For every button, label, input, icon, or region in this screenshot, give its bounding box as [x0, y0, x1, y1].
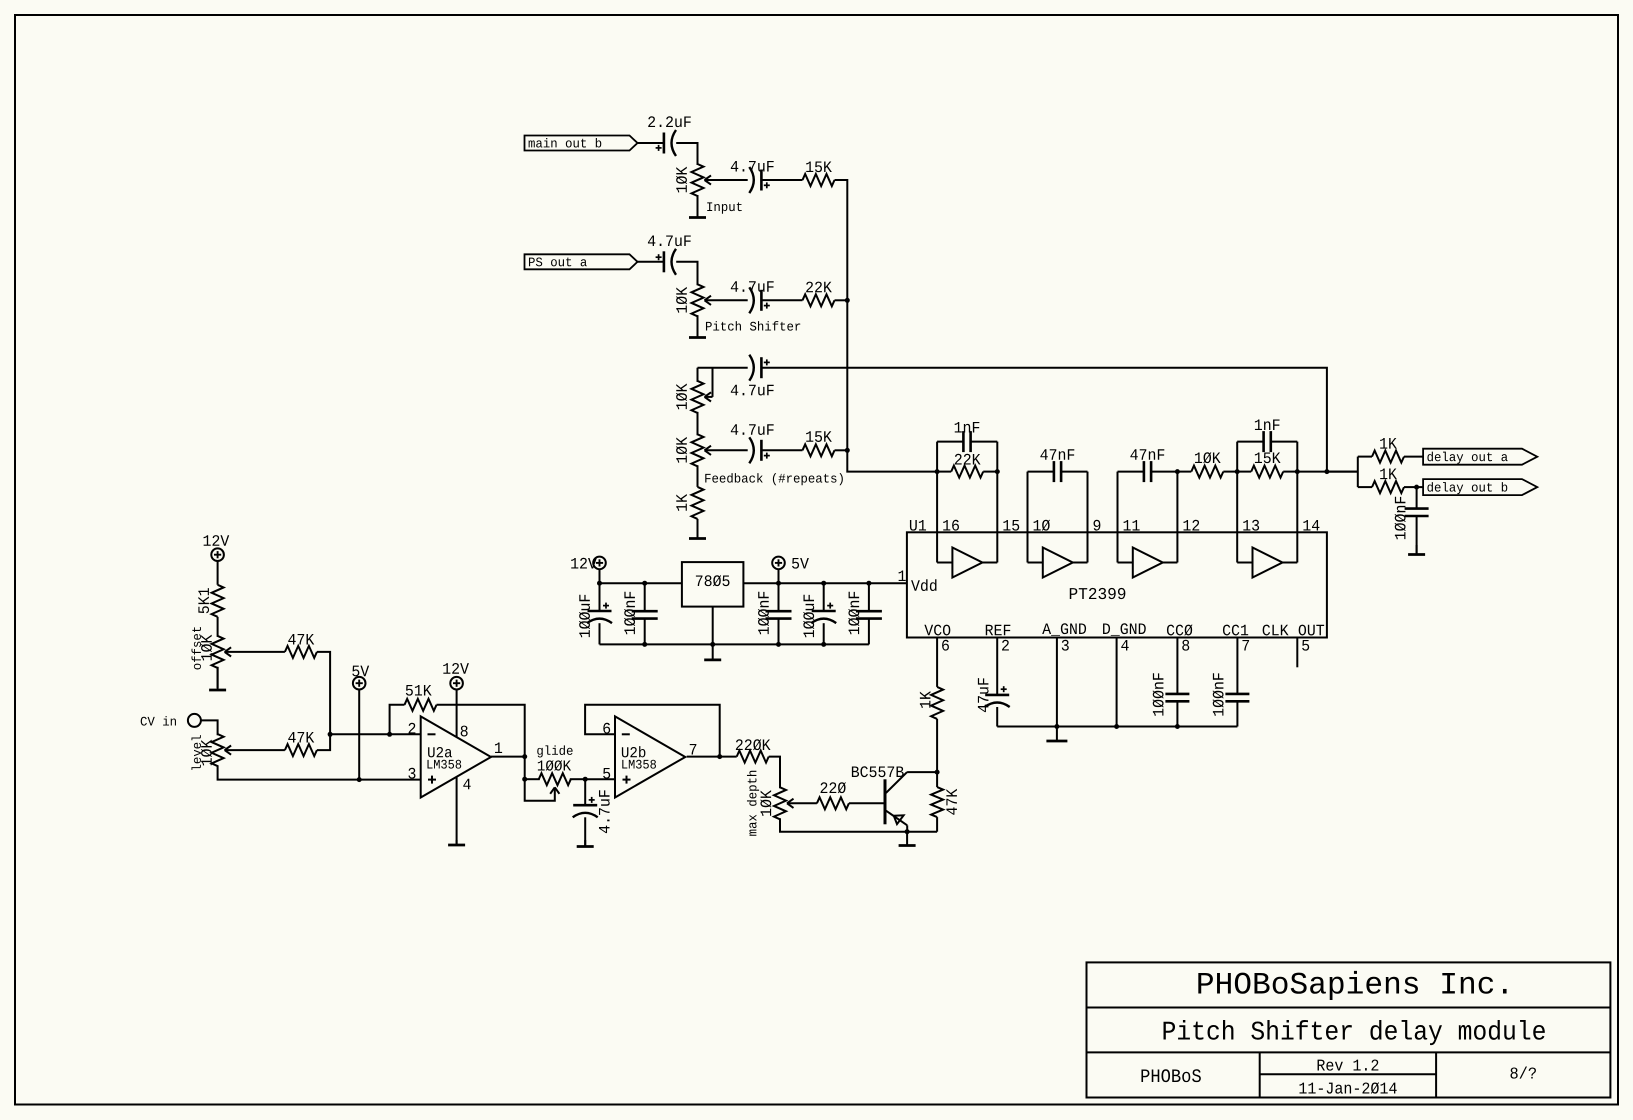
title block divider row2	[1087, 1051, 1611, 1053]
minus sign U2b	[622, 733, 630, 735]
junction 100uF 5V rail	[821, 581, 826, 586]
junction mix bus / 22K	[845, 298, 850, 303]
wire Input wiper to C2	[706, 179, 748, 181]
connector delay out b	[1423, 479, 1537, 495]
label 10K (Input pot)	[676, 167, 687, 193]
wire IC ground rail	[997, 726, 1237, 728]
wire level pot bottom to U2a pin3	[218, 765, 421, 779]
wire feedback wiper to C6	[706, 449, 748, 451]
pin number 7	[1242, 640, 1249, 651]
label 5K1	[198, 588, 209, 613]
capacitor 4.7uF (glide)	[573, 804, 597, 807]
potentiometer 10K feedback lower (Feedback #repeats)	[692, 434, 704, 466]
label 15K (input mix)	[806, 161, 832, 172]
wire 12V rail to 7805	[600, 582, 682, 584]
junction delay out b / 100nF	[1414, 485, 1419, 490]
label CV in	[141, 716, 176, 726]
label 10K (max depth)	[760, 790, 771, 816]
junction pin13 node	[1235, 469, 1240, 474]
wire main out b to C1	[638, 142, 664, 144]
label 4.7uF (PS coupling)	[648, 235, 691, 246]
label U2b	[622, 746, 646, 757]
wire pin10 vertical	[1027, 472, 1029, 533]
connector main out b	[525, 136, 638, 151]
wire 47K top	[936, 772, 938, 787]
label 10K (feedback lower)	[676, 437, 687, 463]
resistor 1K (delay out a)	[1372, 451, 1404, 463]
connector delay out a	[1423, 449, 1537, 465]
label level	[191, 735, 201, 770]
power 5V (CV bias)	[353, 677, 366, 690]
label 1nF (pin13-14)	[1255, 419, 1280, 430]
pin number 9	[1094, 520, 1101, 531]
potentiometer 10K offset	[212, 636, 224, 668]
pin number 6	[942, 640, 949, 651]
wire max depth wiper to 220	[792, 802, 817, 804]
junction U2a output / 51K	[522, 754, 527, 759]
label offset	[191, 627, 201, 669]
label 1K (delay out a)	[1380, 438, 1397, 449]
ground (transistor)	[906, 832, 908, 846]
junction U2b output	[717, 754, 722, 759]
title text date	[1299, 1082, 1396, 1094]
title text Pitch Shifter delay module	[1164, 1020, 1545, 1045]
op-amp buffer C (U1 internal, pins 11-12)	[1117, 532, 1119, 562]
junction 7805 gnd rail	[710, 642, 715, 647]
wire delay output node to split	[1327, 471, 1358, 473]
title text page number	[1510, 1067, 1535, 1079]
label 5V (regulator)	[792, 558, 809, 569]
ground (U2a pin4)	[456, 840, 458, 845]
resistor 1K (delay out b)	[1372, 481, 1404, 493]
ground (delay out b filter)	[1416, 545, 1418, 555]
label 47nF (pin10-9)	[1040, 449, 1074, 460]
wire 100nF to ground	[1416, 516, 1418, 553]
transistor BC557B	[884, 779, 887, 824]
wire C1 to Input pot top	[676, 143, 697, 165]
wire 1K to emitter node	[936, 719, 938, 772]
capacitor 100nF (CC0)	[1165, 693, 1189, 696]
label 12V (offset)	[204, 535, 230, 546]
label PT2399	[1070, 588, 1126, 599]
pin 1 Vdd lead	[869, 582, 907, 584]
pin name OUT	[1299, 625, 1324, 636]
wire 220 to base	[849, 802, 885, 804]
label 4.7uF (feedback top)	[731, 385, 774, 396]
potentiometer 10K max depth	[774, 787, 786, 819]
wire pin15 vertical	[996, 442, 998, 533]
junction 100nF 5V gnd	[776, 642, 781, 647]
plus sign U2a	[428, 779, 436, 781]
title block divider col1	[1259, 1052, 1261, 1097]
capacitor 100nF (5V b)	[868, 583, 870, 611]
junction collector / rail	[905, 829, 910, 834]
wire emitter to bias node	[907, 771, 937, 773]
wire pin7 CC1 down	[1236, 638, 1238, 694]
resistor 1K (VCO)	[931, 687, 943, 719]
wire U2a output	[491, 756, 525, 758]
wire glide node to 4.7uF	[584, 779, 586, 805]
capacitor 47nF (pin10-9)	[1028, 471, 1054, 473]
pin number 3	[408, 768, 415, 779]
title text PHOBoS	[1141, 1069, 1200, 1082]
resistor 51K (U2a feedback)	[390, 705, 405, 735]
label 10K (feedback upper)	[676, 384, 687, 410]
ground (Input pot)	[697, 195, 699, 218]
pin number 2	[409, 723, 416, 734]
label 47K (offset)	[288, 634, 314, 645]
junction pin14 node	[1295, 469, 1300, 474]
label 2.2uF	[648, 116, 691, 127]
junction 12V rail	[597, 581, 602, 586]
wire 47K offset to sum node	[317, 652, 330, 734]
resistor 22K (PS mix)	[803, 294, 835, 306]
pin number 5	[1302, 640, 1309, 651]
wire PS pot bottom to ground	[697, 315, 699, 335]
connector CV in	[188, 714, 201, 727]
wire 47K bottom to rail	[936, 817, 938, 832]
label 1K (feedback)	[676, 494, 687, 511]
label 10K (level)	[201, 740, 212, 766]
op-amp buffer A (U1 internal, pins 16-15)	[936, 532, 938, 562]
pin number 3	[1062, 640, 1069, 651]
wire glide bypass loop	[525, 779, 555, 801]
label 15K (pin13-14)	[1255, 452, 1281, 463]
junction A_GND rail	[1054, 724, 1059, 729]
label 12V (U2a)	[443, 663, 469, 674]
junction pin15 / 22K	[995, 469, 1000, 474]
capacitor 1nF (pin16-15)	[937, 441, 963, 443]
wire pin11 vertical	[1117, 472, 1119, 533]
resistor 220K	[737, 751, 769, 763]
label 10K (offset)	[201, 635, 212, 661]
pin number 8	[461, 726, 468, 737]
junction glide right node	[583, 777, 588, 782]
wire U2b output	[687, 756, 737, 758]
wire 22K to mix bus	[835, 299, 848, 301]
pin number 2	[1002, 640, 1009, 651]
wire 5V to pin3 net	[358, 689, 360, 779]
IC U1 PT2399 body	[907, 532, 1327, 637]
wire between feedback pots	[697, 412, 699, 435]
resistor 15K (input mix)	[803, 174, 835, 186]
wire 5V to rail	[778, 569, 780, 583]
wire 220K to max depth pot	[769, 757, 780, 789]
pin number 14	[1303, 520, 1319, 531]
junction 100uF 5V gnd	[821, 642, 826, 647]
capacitor 100uF (12V bulk)	[599, 583, 601, 611]
pin number 1	[495, 742, 502, 753]
op-amp U2b LM358	[615, 716, 685, 797]
label Input	[707, 202, 742, 213]
wire pin3 A_GND down	[1056, 638, 1058, 727]
wire 15K to mix bus corner	[835, 180, 848, 300]
label 4.7uF (input)	[731, 161, 774, 172]
wire 7805 out rail to Vdd	[743, 582, 869, 584]
wire pin4 D_GND down	[1116, 638, 1118, 727]
label 10K (PS pot)	[676, 287, 687, 313]
wire 47uF to gnd rail	[996, 707, 998, 727]
capacitor 100uF (5V bulk)	[823, 583, 825, 611]
wire PS out a to C3	[638, 261, 664, 263]
label 1nF (pin16-15)	[955, 422, 980, 433]
label 220	[821, 782, 846, 793]
wire CC0 cap to rail	[1176, 701, 1178, 726]
label 1K (VCO)	[920, 691, 931, 708]
wire 15K to bus	[835, 449, 848, 451]
wire feedback pot2 bottom to 1K	[697, 465, 699, 487]
label 47K (level)	[288, 732, 314, 743]
wire feedback pot1 top lead	[697, 368, 699, 382]
pin name REF	[986, 625, 1011, 636]
label 4.7uF (glide)	[599, 790, 610, 833]
pin number 1 (Vdd)	[899, 570, 906, 581]
label glide	[537, 745, 572, 757]
label 100nF (delay out b)	[1395, 497, 1406, 540]
wire pin6 to 1K	[936, 638, 938, 687]
pin number 4	[1121, 640, 1128, 651]
label 100nF (CC0)	[1153, 673, 1164, 716]
wire C3 to PS pot top	[676, 262, 697, 286]
junction feedback return / delay output	[1324, 469, 1329, 474]
op-amp U2a LM358	[421, 716, 491, 797]
wire delay out b to 100nF	[1416, 487, 1418, 509]
resistor 5K1	[212, 585, 224, 617]
label BC557B	[852, 766, 904, 777]
label LM358 (U2a)	[427, 760, 461, 769]
label 4.7uF (PS mix)	[731, 281, 774, 292]
capacitor 4.7uF (PS pot to mix)	[760, 290, 763, 311]
glide wiper arrow	[550, 787, 555, 794]
power 12V (U2a)	[450, 677, 463, 690]
wire level wiper to 47K	[226, 749, 285, 751]
wire C2 to R 15K	[761, 179, 802, 181]
wire 12V to pin8	[456, 689, 458, 737]
resistor 1K (feedback pot to ground)	[692, 487, 704, 519]
junction pin16 / input line	[935, 469, 940, 474]
wire sum node to U2a pin2	[330, 733, 421, 735]
wire PS wiper to C4	[706, 299, 748, 301]
wire feedback return (top) from pot to delay output	[698, 367, 748, 369]
label Vdd	[911, 579, 936, 591]
label 100nF (CC1)	[1213, 673, 1224, 716]
wire 5K1 to offset pot	[217, 617, 219, 637]
resistor 47K (offset)	[285, 646, 317, 658]
junction sum node (pin2 net)	[328, 732, 333, 737]
pin number 5	[603, 768, 610, 779]
potentiometer 10K Pitch Shifter	[692, 284, 704, 316]
wire pin2 REF to 47uF	[996, 638, 998, 695]
capacitor 100nF (CC1)	[1225, 693, 1249, 696]
op-amp buffer D (U1 internal, pins 13-14)	[1236, 532, 1238, 562]
label 1K (delay out b)	[1380, 469, 1397, 480]
junction pin12 node	[1175, 469, 1180, 474]
pin number 6	[603, 723, 610, 734]
power 12V (regulator input)	[593, 557, 606, 570]
label 220K	[736, 739, 771, 750]
pin name CC0	[1167, 624, 1193, 635]
capacitor 4.7uF (input pot to mix)	[760, 170, 763, 191]
wire bus down to PT2399 input line	[846, 300, 848, 450]
junction 100nF 12V rail	[642, 581, 647, 586]
wire max depth bottom rail	[780, 818, 937, 831]
label Pitch Shifter	[706, 321, 800, 331]
minus sign U2a	[428, 733, 436, 735]
wire pin5 OUT stub	[1296, 638, 1298, 668]
junction glide left node	[522, 777, 527, 782]
pin number 7	[690, 744, 697, 755]
label 47K (bias)	[946, 789, 957, 815]
power 12V (offset)	[211, 548, 224, 561]
junction 100nF 5V b rail	[866, 581, 871, 586]
wire 12V to 5K1	[217, 561, 219, 585]
wire pin9 vertical	[1087, 472, 1089, 533]
capacitor 4.7uF (feedback top)	[760, 357, 763, 378]
wire C4 to R 22K	[761, 299, 802, 301]
wire 12V to rail	[599, 569, 601, 583]
label 5V (CV bias)	[352, 666, 369, 677]
junction bus / feedback 15K	[845, 448, 850, 453]
resistor 220	[817, 797, 849, 809]
label 22K (PS mix)	[806, 282, 832, 293]
resistor 47K (bias)	[931, 787, 943, 817]
title text Rev 1.2	[1318, 1059, 1379, 1070]
resistor 47K (level)	[285, 744, 317, 756]
resistor 15K (pin13-14)	[1251, 466, 1283, 478]
ground (feedback 1K)	[697, 530, 699, 539]
ground (A_GND)	[1056, 727, 1058, 742]
junction D_GND rail	[1114, 724, 1119, 729]
plus sign U2b	[623, 779, 631, 781]
wire CV in to level pot	[201, 720, 218, 735]
wire 7805 ground lead	[712, 607, 714, 645]
connector PS out a	[525, 254, 638, 269]
label 10K (pin12-13)	[1195, 452, 1221, 463]
wire regulator ground rail	[600, 643, 869, 645]
title block divider col2	[1435, 1052, 1437, 1097]
junction 51K feedback tap	[387, 732, 392, 737]
ground (offset pot)	[217, 667, 219, 690]
label max depth	[747, 771, 759, 836]
wire pin8 CC0 down	[1176, 638, 1178, 694]
pin number 13	[1243, 520, 1259, 531]
label U1	[910, 520, 926, 531]
pin number 11	[1124, 520, 1140, 531]
junction 100nF 12V gnd	[642, 642, 647, 647]
junction emitter node	[935, 770, 940, 775]
label 51K	[406, 685, 432, 696]
capacitor 47nF (pin11-12)	[1118, 471, 1144, 473]
wire 51K to output	[437, 705, 525, 757]
capacitor 100nF (delay out b)	[1405, 507, 1429, 510]
potentiometer 100K glide	[525, 778, 540, 780]
wire 100uF to bottom rail	[599, 623, 601, 644]
resistor 22K (pin16-15)	[951, 466, 983, 478]
capacitor 47uF (REF)	[985, 694, 1009, 697]
wire pin13 vertical	[1236, 442, 1238, 533]
resistor 10K (pin12-13)	[1191, 466, 1223, 478]
capacitor 100nF (5V a)	[778, 583, 780, 611]
wire pin16 vertical	[936, 442, 938, 533]
capacitor 4.7uF (feedback)	[760, 440, 763, 461]
label 47nF (pin11-12)	[1130, 449, 1164, 460]
pin name A_GND	[1042, 623, 1086, 635]
pin name VCO	[924, 625, 950, 636]
wire output to glide	[524, 757, 526, 780]
ground (glide cap)	[584, 840, 586, 847]
wire output split vertical	[1357, 457, 1359, 488]
wire 1K to ground	[697, 519, 699, 537]
pin name CLK	[1263, 625, 1289, 636]
title block frame	[1087, 962, 1611, 1097]
label 100K (glide)	[538, 760, 571, 771]
wire offset pot to ground	[217, 667, 219, 688]
resistor 15K (feedback)	[803, 444, 835, 456]
potentiometer 10K feedback upper	[692, 381, 704, 413]
label 47uF (REF)	[978, 678, 989, 712]
title block divider row1	[1087, 1007, 1611, 1009]
capacitor 100nF (12V)	[644, 583, 646, 611]
pin number 16	[943, 520, 959, 531]
power 5V (regulator output)	[772, 557, 785, 570]
wire C6 to 15K feedback	[761, 449, 802, 451]
junction 5V rail	[776, 581, 781, 586]
junction 5V / pin3 net	[357, 777, 362, 782]
label 15K (feedback)	[806, 431, 832, 442]
label 12V (regulator)	[571, 558, 597, 569]
wire pin4 to ground	[456, 777, 458, 844]
pin number 10	[1034, 520, 1050, 531]
wire 47K level to sum node	[317, 734, 330, 750]
pin name CC1	[1223, 625, 1248, 636]
label LM358 (U2b)	[622, 760, 656, 769]
capacitor 2.2uF (input coupling)	[663, 133, 666, 154]
label 4.7uF (feedback)	[731, 424, 774, 435]
wire feedback pot1 wiper to top wire	[712, 368, 714, 397]
wire pin14 node to output split	[1297, 471, 1358, 473]
voltage regulator 7805	[682, 562, 744, 607]
wire CC1 cap to rail	[1236, 701, 1238, 726]
pin number 12	[1183, 520, 1199, 531]
wire pin14 vertical	[1296, 442, 1298, 533]
wire U2b feedback loop	[585, 705, 720, 757]
wire Input pot bottom to ground	[697, 195, 699, 215]
wire glide node to U2b pin5	[585, 778, 615, 780]
label 22K (pin16-15)	[955, 454, 981, 465]
title text PHOBoSapiens Inc.	[1198, 971, 1506, 1000]
title block divider rev/date	[1260, 1073, 1436, 1075]
wire pin12 vertical	[1176, 472, 1178, 533]
ground (7805)	[712, 644, 714, 660]
wire 1K b to connector	[1417, 486, 1424, 488]
label U2a	[428, 747, 452, 757]
capacitor 4.7uF (PS coupling)	[663, 251, 666, 272]
wire offset wiper to 47K	[226, 651, 285, 653]
capacitor 1nF (pin13-14)	[1237, 441, 1263, 443]
op-amp buffer B (U1 internal, pins 10-9)	[1027, 532, 1029, 562]
wire 4.7uF glide to ground	[584, 817, 586, 845]
junction CC0 rail	[1175, 724, 1180, 729]
label Feedback (#repeats)	[705, 473, 843, 485]
potentiometer 10K Input	[692, 164, 704, 196]
potentiometer 10K level	[212, 734, 224, 766]
pin number 15	[1003, 520, 1019, 531]
ground (PS pot)	[697, 315, 699, 337]
pin number 8	[1182, 640, 1189, 651]
pin number 4	[463, 779, 470, 790]
pin name D_GND	[1103, 623, 1146, 635]
